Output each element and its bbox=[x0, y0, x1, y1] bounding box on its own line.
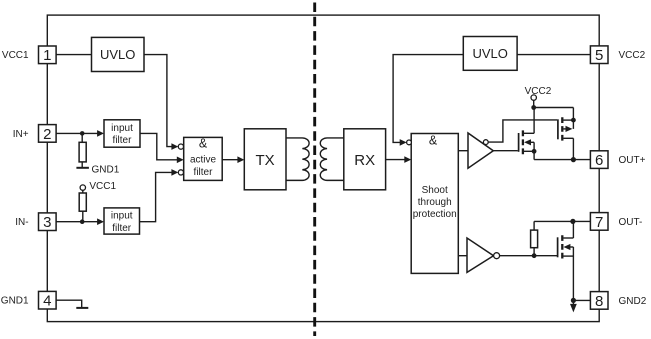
resistor R gate OUT- bbox=[533, 221, 535, 230]
buffer gate driver top bbox=[468, 133, 493, 168]
active filter block bbox=[184, 137, 223, 180]
svg-text:through: through bbox=[418, 197, 452, 208]
wire VCC2 node down bbox=[533, 100, 535, 107]
svg-text:active: active bbox=[190, 155, 217, 166]
svg-text:UVLO: UVLO bbox=[472, 46, 507, 61]
inverter gate driver bottom bbox=[467, 238, 494, 272]
IC package outline border bbox=[47, 15, 599, 322]
pin 3 bbox=[39, 213, 57, 231]
wire OUT+ rail to pin6 bbox=[534, 159, 590, 161]
svg-text:3: 3 bbox=[43, 214, 51, 231]
bubble active filter bottom input bbox=[178, 170, 183, 175]
input filter block 1 bbox=[104, 120, 140, 147]
node gate resistor junction bbox=[532, 253, 537, 258]
svg-text:filter: filter bbox=[194, 167, 214, 178]
node VCC2 rail junction bbox=[531, 105, 536, 110]
input filter block 2 bbox=[104, 208, 140, 234]
wire Q3 drain to OUT- node bbox=[572, 221, 574, 238]
transformer secondary winding bbox=[320, 138, 344, 180]
svg-text:VCC2: VCC2 bbox=[619, 50, 646, 61]
transistor Q1 NMOS pull-up bbox=[518, 133, 520, 152]
RX block bbox=[344, 129, 386, 190]
svg-text:filter: filter bbox=[112, 223, 132, 234]
node pin2 junction bbox=[80, 131, 85, 136]
pin 5 bbox=[590, 46, 608, 64]
node pin3 junction bbox=[80, 219, 85, 224]
wire inverter output to Q3 gate bbox=[500, 255, 558, 257]
node GND2 junction bbox=[571, 298, 576, 303]
node Q2 drain junction bbox=[571, 118, 576, 123]
svg-text:GND1: GND1 bbox=[1, 296, 29, 307]
wire pin5 to UVLO2 bbox=[517, 54, 590, 56]
svg-text:GND1: GND1 bbox=[92, 164, 120, 175]
transistor Q2 PMOS pull-up bbox=[557, 119, 559, 139]
isolation barrier dashed line bbox=[313, 3, 316, 337]
svg-text:input: input bbox=[111, 211, 133, 222]
svg-text:&: & bbox=[429, 133, 438, 147]
wire RX output to AND block bbox=[386, 159, 406, 161]
bubble active filter top input bbox=[178, 144, 183, 149]
wire AND block to buffer bbox=[458, 150, 468, 152]
svg-text:OUT-: OUT- bbox=[619, 217, 643, 228]
transformer primary winding bbox=[286, 138, 309, 180]
ground GND2 arrow bbox=[570, 304, 577, 313]
svg-text:IN+: IN+ bbox=[13, 129, 29, 140]
svg-text:RX: RX bbox=[354, 152, 375, 169]
wire buffer bubble to PMOS gate bbox=[488, 120, 557, 142]
wire pin3 to input filter 2 bbox=[56, 221, 98, 223]
pin 2 bbox=[39, 125, 57, 143]
svg-text:input: input bbox=[111, 123, 133, 134]
svg-text:7: 7 bbox=[595, 214, 603, 231]
svg-text:4: 4 bbox=[43, 293, 51, 310]
wire Q2 drain to OUT+ rail bbox=[572, 138, 574, 159]
AND shoot-through protection block bbox=[411, 134, 458, 274]
bubble AND block top input bbox=[407, 140, 412, 145]
svg-text:6: 6 bbox=[595, 152, 603, 169]
supply VCC2 node circle bbox=[531, 95, 536, 100]
wire VCC2 rail bbox=[534, 107, 574, 109]
pin 1 bbox=[39, 46, 57, 64]
wire GND2 rail to pin8 bbox=[573, 299, 590, 301]
wire UVLO2 output to AND block top input bbox=[393, 55, 463, 143]
wire VCC2 to NMOS drain bbox=[533, 108, 535, 134]
node OUT+ junction bbox=[571, 157, 576, 162]
wire pin1 to UVLO1 bbox=[56, 54, 91, 56]
svg-text:Shoot: Shoot bbox=[422, 185, 448, 196]
svg-text:TX: TX bbox=[256, 152, 275, 169]
wire Q3 source to GND2 rail bbox=[572, 247, 574, 304]
wire pin7 OUT- rail bbox=[534, 220, 590, 222]
wire active filter to TX bbox=[222, 159, 238, 161]
supply VCC1 pull-up circle bbox=[80, 185, 85, 190]
wire buffer output to NMOS gate bbox=[493, 150, 518, 152]
svg-text:OUT+: OUT+ bbox=[619, 155, 646, 166]
pin 8 bbox=[590, 292, 608, 310]
wire pin4 to ground tick bbox=[56, 300, 81, 307]
svg-text:GND2: GND2 bbox=[619, 296, 647, 307]
wire AND block to inverter bbox=[458, 255, 467, 257]
ground GND1 tick at pin4 bbox=[76, 307, 88, 309]
node Q1 source junction bbox=[532, 149, 537, 154]
svg-text:UVLO: UVLO bbox=[100, 47, 135, 62]
svg-text:filter: filter bbox=[113, 135, 133, 146]
bubble on buffer top edge bbox=[483, 140, 488, 145]
node OUT- junction bbox=[570, 219, 575, 224]
svg-text:8: 8 bbox=[595, 293, 603, 310]
wire UVLO1 output to active filter top input bbox=[144, 55, 172, 147]
svg-text:IN-: IN- bbox=[15, 217, 28, 228]
pin 6 bbox=[590, 151, 608, 169]
wire Q2 source tie to VCC2 rail bbox=[572, 108, 574, 129]
pin 4 bbox=[39, 291, 57, 309]
wire input filter1 to active filter middle input bbox=[140, 133, 178, 159]
svg-text:VCC2: VCC2 bbox=[525, 86, 552, 97]
resistor R pull-up IN- bbox=[82, 190, 84, 193]
svg-text:1: 1 bbox=[43, 47, 51, 64]
bubble inverter output bbox=[494, 253, 500, 259]
UVLO block U1 bbox=[92, 37, 145, 71]
svg-text:protection: protection bbox=[413, 209, 457, 220]
wire input filter2 to active filter bottom input bbox=[140, 172, 173, 221]
wire Q1 source to OUT+ rail bbox=[533, 142, 535, 159]
svg-text:VCC1: VCC1 bbox=[2, 50, 29, 61]
TX block bbox=[244, 129, 286, 190]
svg-text:VCC1: VCC1 bbox=[89, 181, 116, 192]
UVLO block U2 bbox=[463, 37, 517, 71]
svg-text:5: 5 bbox=[595, 47, 603, 64]
ground GND1 tick bbox=[76, 167, 89, 169]
pin 7 bbox=[590, 213, 608, 231]
svg-text:2: 2 bbox=[43, 126, 51, 143]
svg-text:&: & bbox=[199, 137, 208, 151]
wire pin2 to input filter 1 bbox=[56, 132, 98, 134]
transistor Q3 NMOS pull-down bbox=[557, 237, 559, 257]
resistor R pull-down IN+ bbox=[81, 133, 83, 142]
